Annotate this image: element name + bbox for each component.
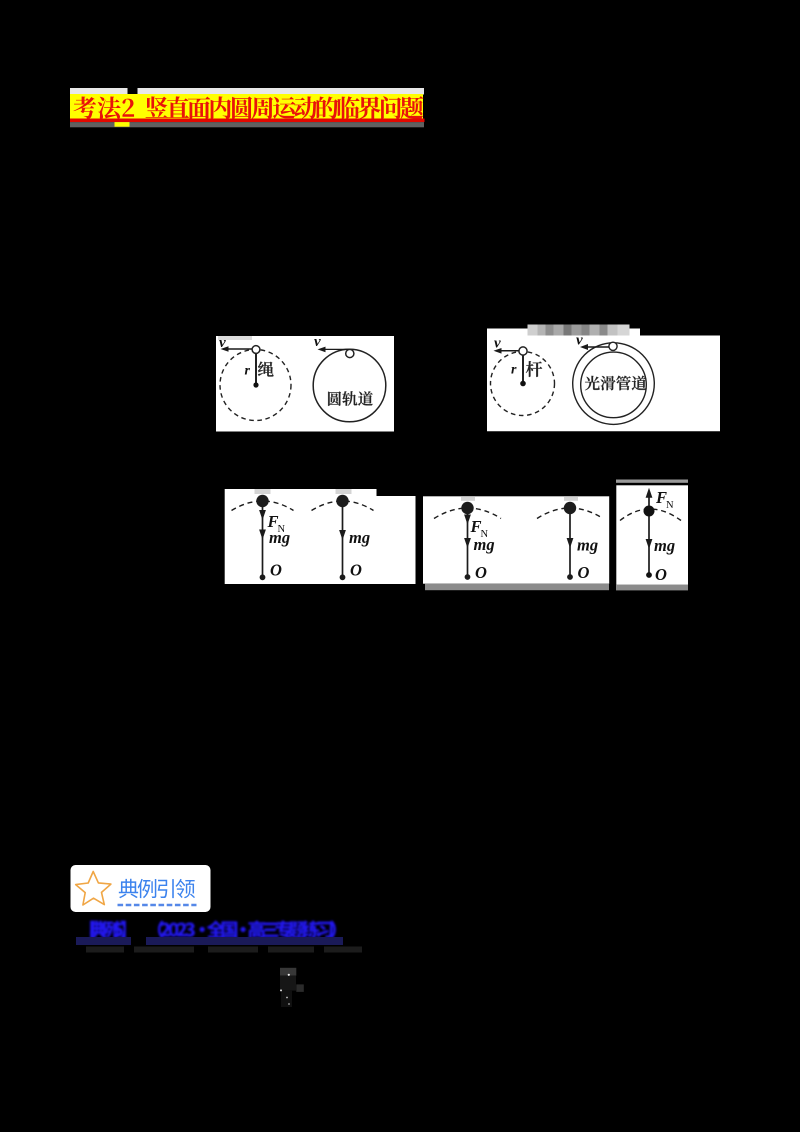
box A diag1 F_N arrowhead	[259, 510, 266, 520]
tube inner circle	[581, 352, 647, 418]
rod center dot	[520, 381, 526, 387]
svg-text:O: O	[350, 561, 362, 580]
tube ball	[609, 342, 617, 350]
title yellow notch under digit	[115, 122, 130, 127]
figure box 2 (rod/tube) white panel	[487, 329, 720, 432]
svg-text:mg: mg	[654, 536, 675, 555]
box A diagram 1 (rope at top): arc, cord, ball, pivot dot	[232, 495, 294, 580]
faint mark block 2	[280, 976, 296, 991]
title yellow highlight	[70, 94, 423, 119]
faint mark block 1	[280, 968, 296, 976]
badge dashed underline	[118, 904, 197, 907]
svg-text:v: v	[219, 335, 226, 351]
force box A white panel	[225, 489, 416, 584]
track circle	[313, 349, 386, 422]
tube label 光滑管道	[585, 376, 600, 390]
force box C top black border	[616, 483, 688, 485]
box A diag1 mg arrowhead	[259, 530, 266, 540]
example navy under-strips	[76, 937, 131, 945]
title text 考法2竖直面内圆周运动的临界问题	[73, 96, 423, 119]
force box B white panel	[423, 496, 609, 583]
box A diag2 mg arrowhead	[339, 530, 346, 540]
figure box 1 (rope/track) white panel	[216, 336, 394, 432]
badge star icon	[76, 872, 111, 906]
faint white speck 3	[286, 997, 288, 999]
badge text 典例引领	[119, 879, 138, 898]
svg-text:r: r	[245, 364, 251, 379]
box C ball	[644, 506, 655, 517]
box B diagram 2: arc, cord, ball, pivot dot	[537, 502, 603, 580]
faint white speck 2	[280, 989, 282, 991]
box A gray tick 1	[255, 489, 271, 494]
box A diagram 2: arc, cord, ball, pivot dot	[312, 495, 374, 580]
svg-text:mg: mg	[474, 535, 495, 554]
svg-text:mg: mg	[269, 528, 290, 547]
rod line r	[522, 355, 524, 384]
force box C top gray strip	[616, 480, 688, 483]
example dark residue row	[86, 947, 124, 953]
box C dashed arc	[620, 509, 681, 521]
box C pivot dot	[646, 572, 652, 578]
box B gray tick 2	[564, 496, 578, 501]
badge white rounded panel	[71, 865, 211, 912]
box B gray tick 1	[461, 496, 475, 501]
svg-text:O: O	[655, 565, 667, 584]
track ball	[346, 349, 354, 357]
tube outer circle	[573, 343, 655, 425]
box C vertical line	[648, 492, 650, 575]
svg-text:O: O	[578, 563, 590, 582]
box B diag1 mg arrowhead	[464, 538, 471, 548]
svg-text:O: O	[475, 563, 487, 582]
title strip black notch	[128, 87, 138, 95]
svg-text:mg: mg	[577, 536, 598, 555]
box C F_N up arrowhead	[646, 488, 653, 498]
faint white speck 1	[288, 974, 290, 976]
title red underline	[70, 119, 425, 123]
box2 pixelated caption band	[528, 325, 538, 336]
faint white speck 4	[288, 1003, 290, 1005]
example blue heading text (blurred)	[90, 920, 336, 938]
rope label 绳	[258, 362, 274, 377]
svg-text:r: r	[511, 363, 517, 378]
rope line r	[255, 353, 257, 386]
box B diag1 F_N arrowhead	[464, 515, 471, 525]
rope velocity arrow	[228, 348, 252, 350]
svg-text:v: v	[314, 334, 321, 350]
box1 top-left gray smudge	[218, 336, 252, 340]
svg-text:v: v	[494, 336, 501, 352]
rope center dot	[253, 382, 258, 387]
title top gray strip	[70, 88, 424, 95]
box B diagram 1: arc, cord, ball, pivot dot	[434, 502, 501, 580]
svg-text:N: N	[666, 500, 674, 511]
force box C white panel	[616, 485, 688, 585]
box B diag2 mg arrowhead	[567, 538, 574, 548]
svg-text:O: O	[270, 561, 282, 580]
box A gray tick 2	[336, 489, 352, 494]
title bottom gray strip	[70, 122, 424, 127]
box C mg arrowhead	[646, 539, 653, 549]
rod label 杆	[526, 361, 542, 377]
rod dashed circle	[491, 352, 555, 416]
svg-text:v: v	[576, 333, 583, 349]
svg-text:mg: mg	[349, 528, 370, 547]
box B bottom gray strip	[425, 584, 609, 591]
faint mark block 4	[281, 990, 292, 1007]
force box C bottom gray strip	[616, 585, 688, 591]
track label 圆轨道	[328, 391, 341, 405]
faint mark block 3	[296, 984, 304, 992]
rope dashed circle	[220, 350, 291, 421]
rod ball	[519, 347, 527, 355]
tube velocity arrow	[587, 346, 609, 348]
rope ball	[252, 346, 260, 354]
track velocity arrow	[325, 348, 349, 350]
rod velocity arrow	[501, 350, 519, 352]
